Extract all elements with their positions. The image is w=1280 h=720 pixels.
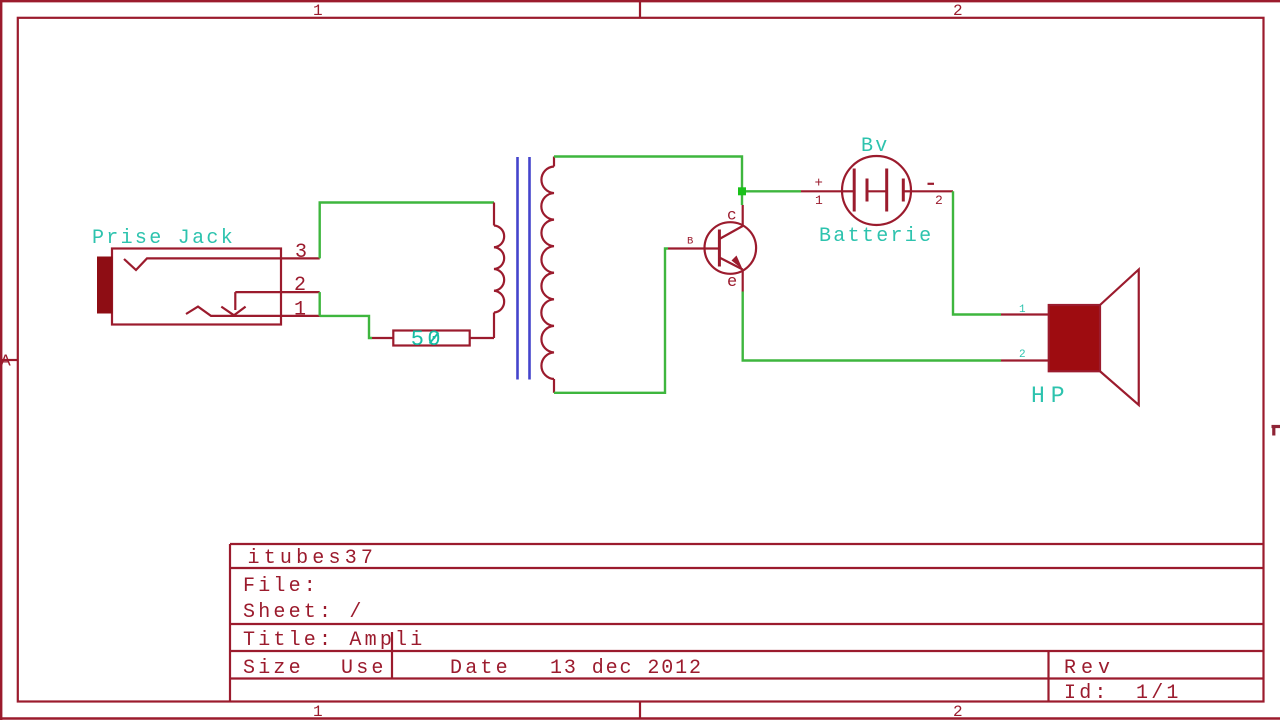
- transformer T1 primary winding: [494, 203, 504, 339]
- svg-text:+: +: [815, 176, 823, 192]
- wire junction to battery plus: [742, 190, 801, 192]
- svg-text:2: 2: [294, 274, 306, 297]
- svg-text:3: 3: [295, 241, 307, 264]
- connector J1 switch contact: [221, 292, 281, 315]
- speaker HP horn: [1100, 270, 1139, 406]
- resistor 50: [372, 331, 494, 346]
- pin 1 of J1: [281, 315, 320, 317]
- svg-text:1/1: 1/1: [1136, 682, 1182, 705]
- svg-text:Id:: Id:: [1064, 682, 1110, 705]
- connector J1 sleeve contact: [186, 307, 281, 316]
- svg-text:1: 1: [313, 703, 323, 720]
- transformer T1 core: [518, 157, 530, 380]
- svg-text:c: c: [727, 207, 737, 225]
- svg-text:HP: HP: [1031, 383, 1071, 409]
- wire secondary top to collector junction: [554, 157, 742, 192]
- svg-text:Use: Use: [341, 657, 387, 680]
- wire emitter to speaker pin2: [743, 292, 1001, 361]
- transistor Q1 emitter arrow: [732, 256, 743, 270]
- svg-text:Size: Size: [243, 657, 304, 680]
- speaker pin 1: [1001, 313, 1049, 315]
- speaker HP body: [1049, 305, 1100, 371]
- border row tick left: [2, 359, 18, 361]
- svg-text:Rev: Rev: [1064, 657, 1115, 680]
- wire junction to collector: [741, 191, 743, 205]
- connector J1 plug (filled): [98, 257, 113, 313]
- wire secondary bottom to base: [554, 249, 668, 393]
- svg-text:2: 2: [953, 2, 963, 20]
- battery pin 1 (plus): [801, 190, 842, 192]
- svg-text:1: 1: [815, 193, 823, 208]
- svg-text:Bv: Bv: [861, 135, 890, 158]
- svg-text:1: 1: [1019, 304, 1026, 316]
- svg-text:2: 2: [953, 703, 963, 720]
- svg-text:A: A: [1, 353, 12, 372]
- wire pin3 to transformer primary: [320, 203, 494, 259]
- transistor Q1: [668, 205, 756, 292]
- battery BT1: [842, 156, 912, 225]
- svg-text:1: 1: [313, 2, 323, 20]
- svg-text:2: 2: [1019, 349, 1026, 361]
- junction dot: [738, 187, 746, 195]
- wire pin2 to pin1: [319, 292, 321, 316]
- svg-text:B: B: [687, 236, 693, 248]
- connector J1 Prise Jack body: [112, 249, 281, 325]
- transformer T1 secondary winding: [541, 157, 554, 393]
- right margin cropped glyph: [1272, 425, 1280, 428]
- svg-text:Title: Ampli: Title: Ampli: [243, 629, 425, 652]
- pin 3 of J1: [281, 257, 320, 259]
- border column tick top: [639, 2, 641, 18]
- title block frame: [230, 544, 1263, 702]
- svg-text:itubes37: itubes37: [248, 547, 378, 570]
- speaker pin 2: [1001, 359, 1049, 361]
- border column tick bottom: [639, 702, 641, 718]
- svg-text:Batterie: Batterie: [819, 225, 933, 248]
- wire battery to speaker pin1: [953, 191, 1001, 314]
- svg-text:1: 1: [294, 299, 306, 322]
- svg-text:Date: Date: [450, 657, 511, 680]
- title block stray vertical line: [391, 632, 393, 679]
- svg-text:e: e: [727, 273, 737, 292]
- svg-text:13 dec 2012: 13 dec 2012: [550, 657, 703, 680]
- pin 2 of J1: [281, 291, 320, 293]
- wire pin1 to resistor: [320, 316, 372, 338]
- svg-text:Prise Jack: Prise Jack: [92, 227, 235, 250]
- svg-text:2: 2: [935, 193, 943, 208]
- battery pin 2 (minus): [911, 190, 953, 192]
- svg-text:Sheet: /: Sheet: /: [243, 601, 365, 624]
- svg-text:50: 50: [411, 327, 444, 352]
- connector J1 tip contact: [124, 258, 281, 270]
- svg-text:File:: File:: [243, 575, 319, 598]
